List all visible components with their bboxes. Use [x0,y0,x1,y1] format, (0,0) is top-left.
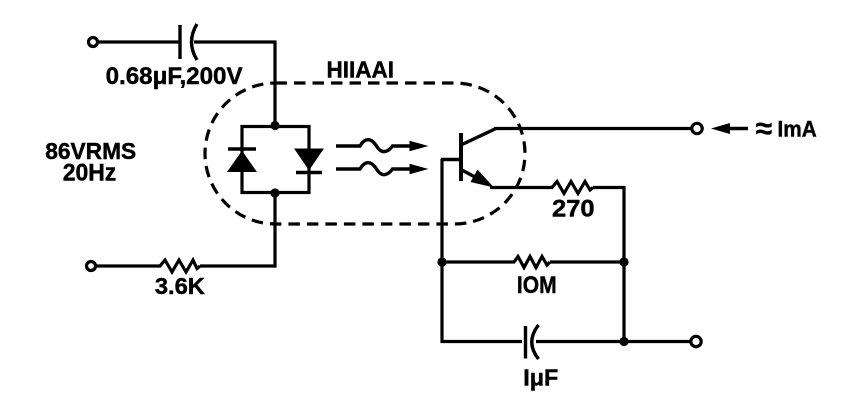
wire corner down to bridge [273,41,276,128]
wire T1 to C1 [98,40,179,43]
diode D1 triangle [228,152,256,172]
terminal T2 (bottom-left input) [87,262,96,271]
svg-text:HIIAAI: HIIAAI [327,57,395,83]
wire to R3 [442,260,515,263]
wire right rail vertical [622,186,625,342]
transistor Q1 base lead [441,158,459,161]
resistor R1 3.6K [160,260,200,272]
wire collector to T3 [494,127,692,130]
transistor Q1 collector lead [461,129,496,146]
diode D1 (left, pointing up) cathode bar [228,147,256,151]
resistor R2 270 [552,182,593,194]
capacitor C1 0.68uF left plate [178,25,181,59]
transistor Q1 emitter lead [461,170,487,184]
transistor Q1 emitter arrow [471,170,495,188]
terminal T4 (output bottom-right) [691,336,701,346]
node top of diode bridge [270,121,279,130]
svg-text:3.6K: 3.6K [155,273,205,299]
transistor Q1 base bar [459,133,463,181]
diode D2 (right, pointing down) triangle [295,149,323,170]
capacitor C1 right curved plate [192,24,198,60]
wire R2 to right rail corner [593,186,626,189]
light arrow 2 [336,163,411,175]
wire emitter to R2 [490,186,553,189]
wire diode bridge frame [242,127,309,193]
node bottom of diode bridge [270,188,279,197]
svg-text:IOM: IOM [517,272,557,299]
terminal T3 (output top-right) [692,123,702,133]
node bottom rail/right rail junction [619,337,628,346]
optocoupler U1 dashed outline [205,83,525,224]
light arrow 1 [336,140,411,152]
svg-text:20Hz: 20Hz [63,160,117,187]
current arrow 1mA [727,127,748,130]
node 10M/right rail junction [619,257,628,266]
wire bottom rail left [441,340,523,343]
svg-text:IμF: IμF [523,365,558,391]
capacitor C2 1uF left plate [524,326,527,359]
svg-text:270: 270 [552,196,595,223]
wire bridge down to lower rail [273,192,276,268]
capacitor C2 right curved plate [532,325,539,359]
wire C1 to corner [194,40,277,43]
svg-text:0.68μF,200V: 0.68μF,200V [106,63,243,90]
wire R1 to corner [200,264,277,267]
wire base lead down [440,159,443,343]
svg-text:≈: ≈ [756,113,772,146]
diode D2 cathode bar [296,171,322,175]
svg-text:ImA: ImA [778,117,817,142]
wire C2 to T4 [536,340,691,343]
wire T2 to R1 [96,264,161,267]
node base/10M junction [437,257,446,266]
resistor R3 10M [514,257,550,268]
terminal T1 (top-left input) [89,38,98,47]
wire R3 to right rail [550,260,624,263]
